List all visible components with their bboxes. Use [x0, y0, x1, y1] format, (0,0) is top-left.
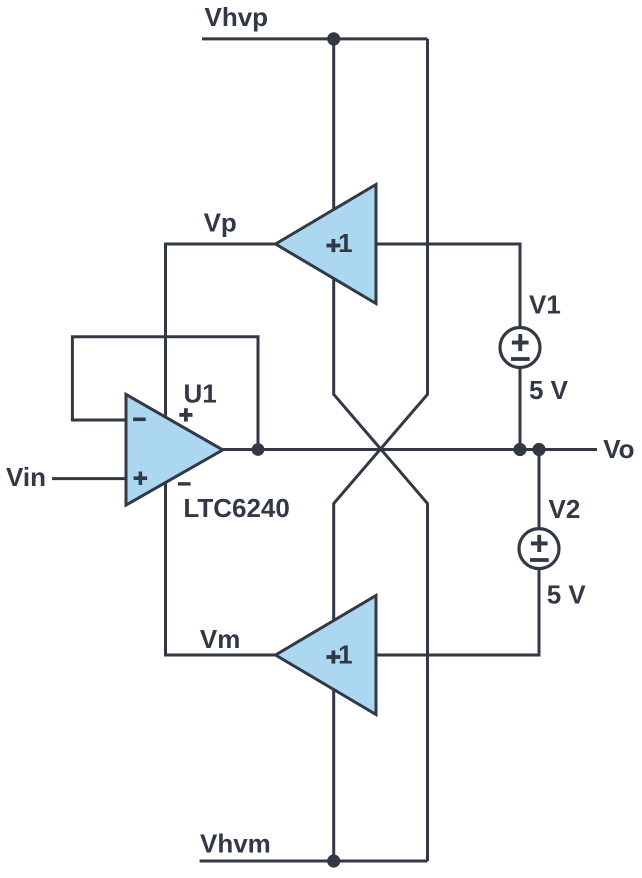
wire top buffer V+ to Vhvp then cross to Vhvm corner — [334, 39, 428, 861]
gain label +1 (top buffer) — [326, 239, 340, 252]
U1 non-inverting input plus sign — [134, 476, 148, 480]
V1 polarity plus-minus marks — [511, 334, 530, 361]
node junction dot on Vhvm — [327, 854, 340, 867]
svg-text:1: 1 — [338, 228, 352, 258]
svg-text:Vin: Vin — [6, 462, 46, 492]
node V2 junction on output line — [532, 443, 545, 456]
svg-text:Vm: Vm — [200, 624, 240, 654]
svg-text:1: 1 — [338, 640, 352, 670]
gain label +1 (bottom buffer) — [326, 651, 340, 664]
wire Vhvp rail — [202, 37, 428, 40]
wire Vp from top buffer output down to U1 V+ and on to Vm — [166, 244, 276, 655]
wire Vhvm rail — [200, 860, 428, 863]
wire bottom buffer V+ from Vhvp corner crossing down — [334, 39, 428, 861]
node U1 output / feedback junction — [252, 443, 265, 456]
svg-text:Vhvp: Vhvp — [205, 2, 269, 32]
op-amp buffer bottom +1 — [276, 596, 377, 715]
V2 polarity plus-minus marks — [530, 535, 549, 562]
voltage source V2 — [519, 529, 559, 569]
op-amp U1 LTC6240 — [126, 394, 223, 505]
wire feedback loop U1 output to inverting input — [72, 337, 258, 450]
wire top buffer input to V1 — [376, 244, 520, 450]
U1 V+ supply pin plus marker — [179, 408, 192, 421]
svg-text:Vo: Vo — [603, 434, 634, 464]
svg-text:Vp: Vp — [204, 208, 237, 238]
U1 inverting input minus sign — [133, 418, 146, 422]
svg-text:Vhvm: Vhvm — [200, 828, 271, 858]
svg-text:V1: V1 — [529, 289, 561, 319]
node V1 junction on output line — [513, 443, 526, 456]
wire main output line to Vo — [223, 448, 597, 451]
wire Vin input — [52, 477, 126, 480]
U1 V- supply pin minus marker — [178, 482, 191, 485]
node junction dot on Vhvp — [327, 32, 340, 45]
svg-text:LTC6240: LTC6240 — [183, 493, 289, 523]
wire bottom buffer input to V2 — [376, 450, 539, 656]
op-amp buffer top +1 — [276, 185, 377, 304]
svg-text:U1: U1 — [184, 378, 217, 408]
voltage source V1 — [500, 328, 540, 368]
svg-text:5 V: 5 V — [547, 579, 587, 609]
svg-text:5 V: 5 V — [529, 375, 569, 405]
svg-text:V2: V2 — [549, 494, 581, 524]
